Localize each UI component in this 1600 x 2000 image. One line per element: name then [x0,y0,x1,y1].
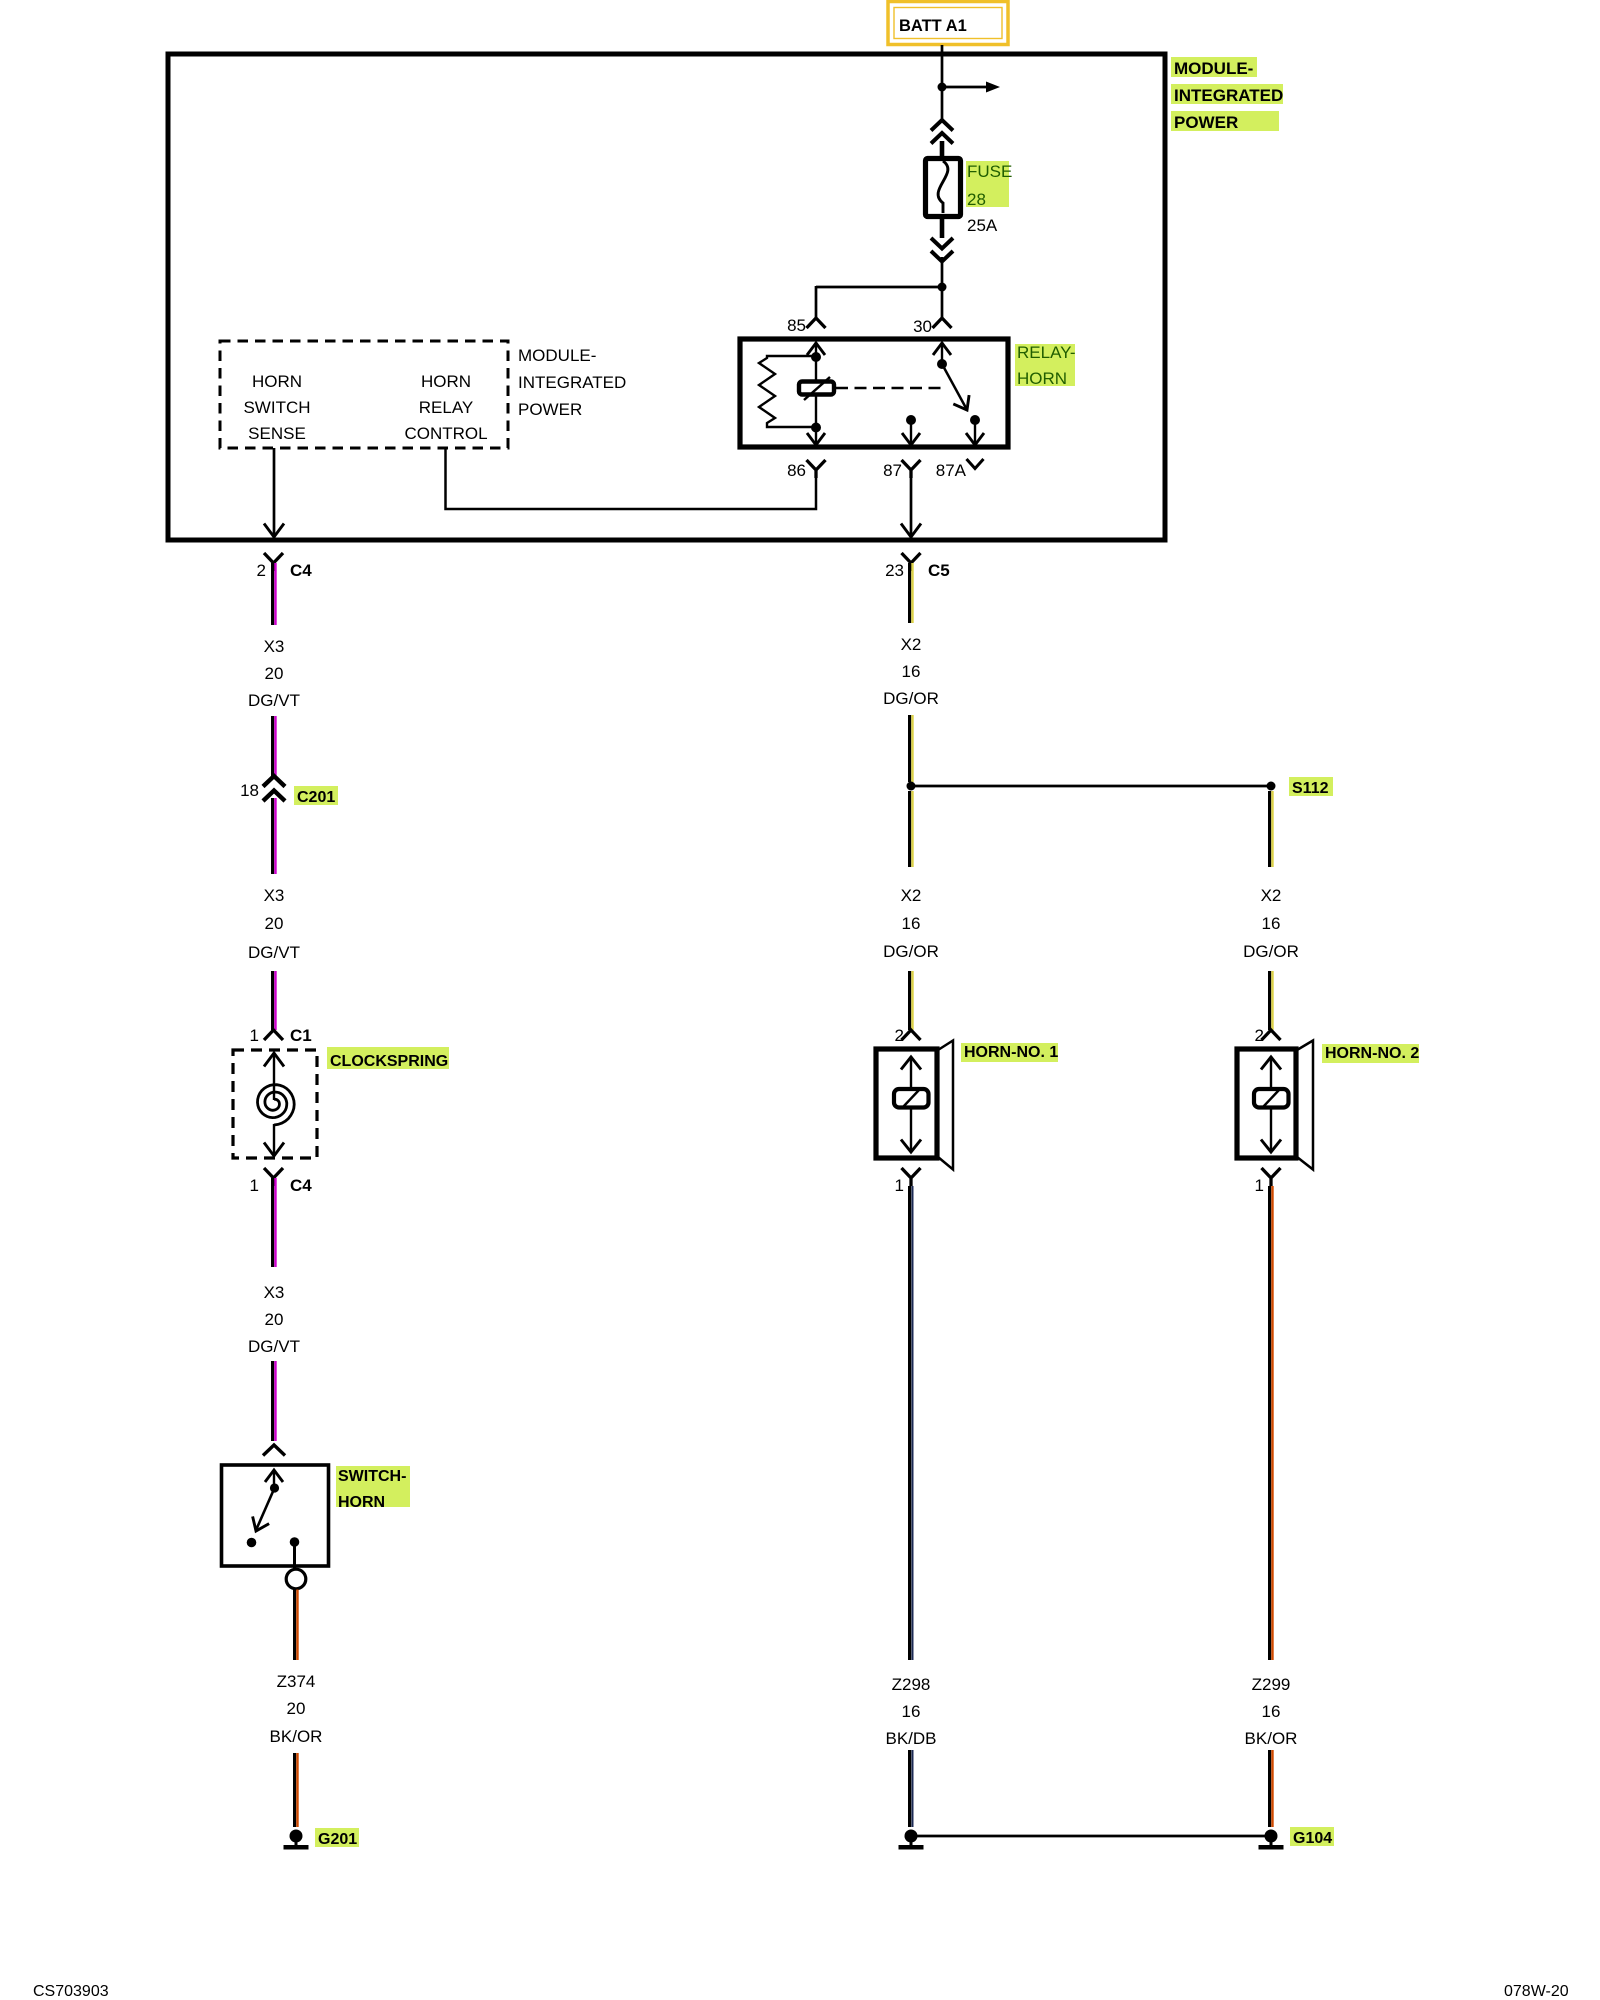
wire Z299 BK/OR segment 2 [1270,1750,1273,1827]
label G201 [315,1828,359,1848]
wire relay pin 86 to horn relay control [446,448,817,509]
connector C4 [264,553,283,571]
svg-text:DG/OR: DG/OR [1243,942,1299,961]
relay pin 30 entry arrow [933,342,951,364]
clockspring spiral [258,1085,295,1125]
switch SWITCH-HORN box [222,1465,329,1566]
svg-text:CONTROL: CONTROL [404,424,487,443]
svg-text:HORN-NO. 2: HORN-NO. 2 [1325,1045,1419,1062]
wire Z299 BK/OR segment 1 [1270,1186,1273,1660]
wire DG/VT segment 2 [273,716,276,777]
label HORN RELAY CONTROL [404,372,487,443]
wire DG/OR mid segment 2 [910,715,913,782]
node battery feed junction [938,83,947,92]
connector relay pin 87A stub [967,459,984,469]
svg-text:20: 20 [265,1310,284,1329]
connector C201 [263,776,285,801]
svg-text:16: 16 [902,662,921,681]
wire Z374 BK/OR segment 2 [295,1753,298,1827]
svg-text:BATT A1: BATT A1 [899,17,967,35]
svg-text:DG/VT: DG/VT [248,1337,300,1356]
connector relay pin 30 [933,318,952,328]
label MODULE-INTEGRATED POWER [1171,57,1283,132]
wire label X3 20 DG/VT [248,1283,300,1356]
svg-text:HORN-NO. 1: HORN-NO. 1 [964,1044,1058,1061]
relay pin 87 node [906,415,916,425]
relay pin 87A arrow [966,420,984,445]
wire DG/OR right segment 2 [1270,971,1273,1030]
label G104 [1290,1827,1334,1847]
relay coil [799,377,834,400]
wire label Z299 16 BK/OR [1245,1675,1298,1748]
svg-text:1: 1 [250,1176,259,1195]
switch output terminal circle [286,1569,306,1589]
svg-text:RELAY-: RELAY- [1017,343,1076,362]
wire BATT A1 to fuse [941,45,944,121]
svg-text:078W-20: 078W-20 [1504,1983,1569,2000]
svg-text:20: 20 [287,1699,306,1718]
connector relay pin 85 [807,318,826,328]
wire DG/VT segment 3 [273,798,276,874]
svg-text:87A: 87A [936,461,967,480]
label FUSE 28 [966,161,1012,209]
module box MODULE-INTEGRATED POWER [168,54,1165,540]
connector relay pin 86 [807,460,826,478]
svg-text:S112: S112 [1292,780,1329,797]
relay coil to pin 86 arrow [807,395,825,445]
wire branch to relay pin 85 [816,286,942,318]
svg-text:Z298: Z298 [892,1675,931,1694]
svg-text:SWITCH-: SWITCH- [338,1468,406,1485]
horn2 bottom arrow [1261,1108,1281,1152]
svg-text:2: 2 [1255,1026,1264,1045]
switch contact node left [247,1538,257,1548]
svg-text:Z374: Z374 [277,1672,316,1691]
relay coil top node [811,352,821,362]
horn HORN-NO.1 box [876,1041,953,1170]
svg-text:1: 1 [895,1176,904,1195]
relay common node [937,359,947,369]
svg-text:87: 87 [883,461,902,480]
wire DG/VT segment 1 [273,563,276,625]
wire DG/OR right segment 1 [1270,791,1273,867]
relay coil bottom node [811,423,821,433]
svg-text:SWITCH: SWITCH [243,398,310,417]
svg-text:INTEGRATED: INTEGRATED [1174,86,1283,105]
label RELAY-HORN [1015,343,1076,388]
svg-text:X3: X3 [264,1283,285,1302]
wire relay pin 87 out of module [901,478,921,537]
label HORN-NO. 1 [961,1043,1058,1062]
horn1 bottom arrow [901,1108,921,1152]
svg-text:X3: X3 [264,886,285,905]
svg-text:1: 1 [250,1026,259,1045]
wire label Z298 16 BK/DB [885,1675,936,1748]
wire fuse to chevrons [940,216,945,238]
switch common node [270,1483,279,1492]
svg-text:SENSE: SENSE [248,424,306,443]
clockspring bottom arrow [264,1124,284,1156]
svg-text:86: 86 [787,461,806,480]
relay switch arm [942,364,969,410]
horn1 top arrow [901,1056,921,1090]
svg-text:G104: G104 [1293,1830,1332,1847]
svg-text:85: 85 [787,316,806,335]
wire label X2 16 DG/OR [883,635,939,708]
svg-text:X2: X2 [1261,886,1282,905]
label MODULE-INTEGRATED POWER inner [518,346,626,419]
wire DG/VT segment 4 [273,971,276,1030]
switch contact node right [290,1537,300,1570]
svg-text:1: 1 [1255,1176,1264,1195]
svg-text:25A: 25A [967,216,998,235]
connector horn2 pin 1 [1262,1168,1281,1186]
relay pin 85 entry arrow [807,342,825,382]
label SWITCH-HORN [336,1466,410,1511]
wire label X2 16 DG/OR [1243,886,1299,961]
switch arm [253,1488,275,1531]
battery feed box BATT A1 [888,2,1008,45]
svg-text:CLOCKSPRING: CLOCKSPRING [330,1053,448,1070]
svg-text:X2: X2 [901,886,922,905]
wire DG/OR mid segment 3 [910,791,913,867]
svg-text:RELAY: RELAY [419,398,474,417]
svg-text:HORN: HORN [338,1494,385,1511]
svg-text:DG/OR: DG/OR [883,942,939,961]
wire DG/VT segment 5 [273,1178,276,1267]
clockspring top arrow [264,1053,284,1100]
clockspring CLOCKSPRING dashed box [233,1050,317,1158]
svg-text:POWER: POWER [518,400,582,419]
splice S112 right node [1267,782,1276,791]
svg-text:23: 23 [885,561,904,580]
svg-text:FUSE: FUSE [967,162,1012,181]
svg-text:HORN: HORN [252,372,302,391]
svg-text:C4: C4 [290,1176,312,1195]
label HORN-NO. 2 [1322,1044,1419,1063]
horn2 coil [1254,1089,1289,1108]
fuse FUSE 28 25A [926,159,961,217]
svg-text:Z299: Z299 [1252,1675,1291,1694]
wire label X2 16 DG/OR [883,886,939,961]
connector horn1 pin 2 [902,1030,921,1040]
wire to relay pin 30 [941,287,944,318]
svg-text:16: 16 [902,914,921,933]
relay coil actuation dashed link [836,387,947,390]
svg-text:28: 28 [967,190,986,209]
svg-text:18: 18 [240,781,259,800]
wire DG/OR mid segment 4 [910,971,913,1030]
connector C4 lower [264,1168,283,1186]
ground G104 symbol [1259,1830,1284,1850]
wire label X3 20 DG/VT [248,637,300,710]
svg-text:HORN: HORN [1017,369,1067,388]
svg-text:POWER: POWER [1174,113,1238,132]
wire label Z374 20 BK/OR [270,1672,323,1746]
wire Z298 BK/DB segment 2 [910,1750,913,1827]
ground G201 symbol [284,1830,309,1850]
wire ground link [917,1835,1265,1838]
svg-text:16: 16 [902,1702,921,1721]
wire DG/OR mid segment 1 [910,563,913,623]
connector chevron at horn switch [263,1445,285,1456]
svg-text:G201: G201 [318,1831,357,1848]
relay resistor [759,356,816,427]
wire to relay node [941,257,944,287]
svg-text:20: 20 [265,914,284,933]
svg-text:C201: C201 [297,789,335,806]
horn HORN-NO.2 box [1237,1041,1313,1170]
connector C5 [902,553,921,571]
svg-text:C4: C4 [290,561,312,580]
connector chevrons above fuse [931,120,953,144]
label S112 [1289,777,1333,797]
svg-text:20: 20 [265,664,284,683]
wire label X3 20 DG/VT [248,886,300,962]
svg-text:DG/VT: DG/VT [248,691,300,710]
svg-text:HORN: HORN [421,372,471,391]
wire Z374 BK/OR segment 1 [295,1590,298,1661]
svg-text:BK/DB: BK/DB [885,1729,936,1748]
svg-text:DG/OR: DG/OR [883,689,939,708]
svg-text:DG/VT: DG/VT [248,943,300,962]
switch entry arrow [265,1470,283,1488]
wire chevrons to fuse [940,141,945,159]
connector relay pin 87 [902,460,921,478]
connector horn2 pin 2 [1262,1030,1281,1040]
svg-text:C1: C1 [290,1026,312,1045]
svg-text:C5: C5 [928,561,950,580]
svg-text:16: 16 [1262,1702,1281,1721]
svg-text:BK/OR: BK/OR [1245,1729,1298,1748]
splice S112 node [907,782,916,791]
wire branch arrow to other circuits [942,82,1000,93]
svg-text:X2: X2 [901,635,922,654]
svg-text:MODULE-: MODULE- [1174,59,1253,78]
relay pin 87 arrow [902,420,920,445]
wire DG/VT segment 6 [273,1361,276,1441]
connector horn1 pin 1 [902,1168,921,1186]
svg-text:2: 2 [257,561,266,580]
svg-text:BK/OR: BK/OR [270,1727,323,1746]
wire horn switch sense to connector C4 [264,448,284,537]
svg-text:30: 30 [913,317,932,336]
svg-text:MODULE-: MODULE- [518,346,596,365]
svg-text:X3: X3 [264,637,285,656]
node fuse output junction [938,283,947,292]
svg-text:CS703903: CS703903 [33,1983,109,2000]
svg-text:INTEGRATED: INTEGRATED [518,373,626,392]
wire splice S112 link [911,785,1271,788]
label CLOCKSPRING [327,1047,449,1070]
ground left G104 symbol [899,1830,924,1850]
dashed box HORN SWITCH SENSE / HORN RELAY CONTROL [220,341,508,448]
svg-text:16: 16 [1262,914,1281,933]
connector chevrons below fuse [931,238,953,262]
relay RELAY-HORN box [740,339,1008,447]
svg-text:2: 2 [895,1026,904,1045]
label HORN SWITCH SENSE [243,372,310,443]
wire Z298 BK/DB segment 1 [910,1186,913,1660]
connector C1 [264,1030,283,1040]
label C201 [294,786,338,806]
horn1 coil [894,1089,929,1108]
horn2 top arrow [1261,1056,1281,1090]
relay pin 87A node [970,415,980,425]
